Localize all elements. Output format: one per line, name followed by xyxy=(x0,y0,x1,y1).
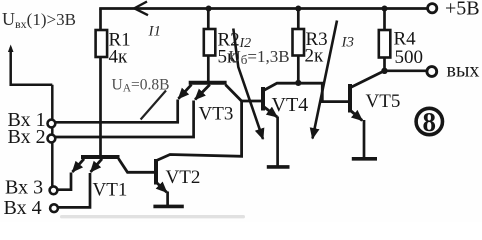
resistor R1 xyxy=(99,9,102,31)
transistor VT5 base bar xyxy=(348,84,352,113)
wire R2 to VT3 base xyxy=(207,56,210,83)
VT4 emitter xyxy=(264,107,278,118)
wire output node to terminal xyxy=(385,69,429,72)
node junction output xyxy=(381,68,387,74)
VT1 collector wire to VT2 base xyxy=(119,159,155,173)
wire VT2 emitter to ground xyxy=(166,192,169,206)
ground VT4 xyxy=(267,165,290,169)
wire Vx2 to VT3 emitter2 xyxy=(52,101,194,138)
terminal +5V xyxy=(428,4,437,13)
current arrow I2 xyxy=(233,29,263,140)
wire Vx4 to VT1 emitter2 xyxy=(55,173,90,207)
transistor VT1 base bar xyxy=(81,155,120,159)
node junction R3/top rail xyxy=(295,6,301,12)
scan smudge bottom left xyxy=(60,215,245,218)
svg-text:Вх 4: Вх 4 xyxy=(4,197,42,219)
svg-text:VT3: VT3 xyxy=(199,104,234,125)
terminal Vx1 xyxy=(48,120,56,128)
VT3 emitter 2 xyxy=(195,85,210,100)
wire VT5 emitter to ground xyxy=(363,120,366,158)
svg-text:I1: I1 xyxy=(148,24,162,40)
svg-text:I3: I3 xyxy=(341,35,355,51)
svg-text:UА=0.8В: UА=0.8В xyxy=(112,77,170,95)
node junction R2/top rail xyxy=(206,6,212,12)
wire Vx3 stub to VT1 emitter1 xyxy=(54,173,71,190)
terminal Vx3 xyxy=(50,186,58,194)
transistor VT3 base bar xyxy=(189,81,227,85)
svg-text:Uб=1,3В: Uб=1,3В xyxy=(229,47,290,67)
VT2 emitter xyxy=(157,183,167,193)
resistor R3 xyxy=(297,9,300,30)
VT5 emitter xyxy=(351,111,363,121)
terminal Vx2 xyxy=(48,135,56,143)
VT3 collector wire to VT2 collector net xyxy=(225,85,242,102)
node junction R3/VT4 collector xyxy=(295,80,301,86)
figure number 8 circled xyxy=(416,108,442,134)
wire R3 node to VT5 base xyxy=(298,83,348,101)
terminal output xyxy=(427,67,437,77)
wire R4 to output node xyxy=(383,58,386,72)
node junction R4/top rail xyxy=(382,6,388,12)
svg-text:Вх 2: Вх 2 xyxy=(8,126,46,148)
ground VT2 xyxy=(153,205,183,209)
VT3 emitter 1 xyxy=(178,85,191,99)
wire +5V top rail xyxy=(99,7,428,10)
pointer wire from label to input bus xyxy=(11,48,53,85)
resistor R4 xyxy=(383,9,386,31)
VT1 emitter 1 xyxy=(72,159,84,172)
transistor VT4 base bar xyxy=(261,87,265,111)
wire R3 to node xyxy=(297,56,300,84)
current arrow I1 on rail xyxy=(134,2,148,16)
svg-text:VT1: VT1 xyxy=(93,180,128,201)
svg-text:+5В: +5В xyxy=(445,0,480,20)
VT4 collector wire to R3 node xyxy=(264,83,299,90)
wire VT4 emitter to ground xyxy=(276,117,279,167)
pointer line UA to node A xyxy=(141,91,166,120)
svg-text:VT4: VT4 xyxy=(272,94,309,116)
VT2 collector wire to VT4 base xyxy=(157,101,262,161)
arrowhead up on pointer xyxy=(8,45,14,53)
svg-text:VT2: VT2 xyxy=(166,167,201,188)
terminal Vx4 xyxy=(50,204,58,212)
transistor VT2 base bar xyxy=(154,159,158,185)
current arrow I3 xyxy=(313,21,338,139)
resistor R2 xyxy=(207,9,210,30)
svg-text:4к: 4к xyxy=(109,47,129,68)
svg-text:Вх 3: Вх 3 xyxy=(5,177,43,199)
wire Vx1 to VT3 emitter1 xyxy=(52,100,178,123)
svg-text:500: 500 xyxy=(395,47,424,68)
svg-text:2к: 2к xyxy=(305,46,325,67)
svg-text:VT5: VT5 xyxy=(366,91,401,112)
VT1 emitter 2 xyxy=(91,159,102,172)
svg-text:Uвх(1)>3В: Uвх(1)>3В xyxy=(2,9,76,31)
svg-text:8: 8 xyxy=(423,107,437,137)
wire R1 to VT1 base xyxy=(99,57,102,157)
wire input bus vertical Vx1-Vx3 xyxy=(51,85,54,187)
VT5 collector wire to output node xyxy=(351,71,384,87)
svg-text:вых: вых xyxy=(447,60,480,82)
ground VT5 xyxy=(352,157,377,161)
